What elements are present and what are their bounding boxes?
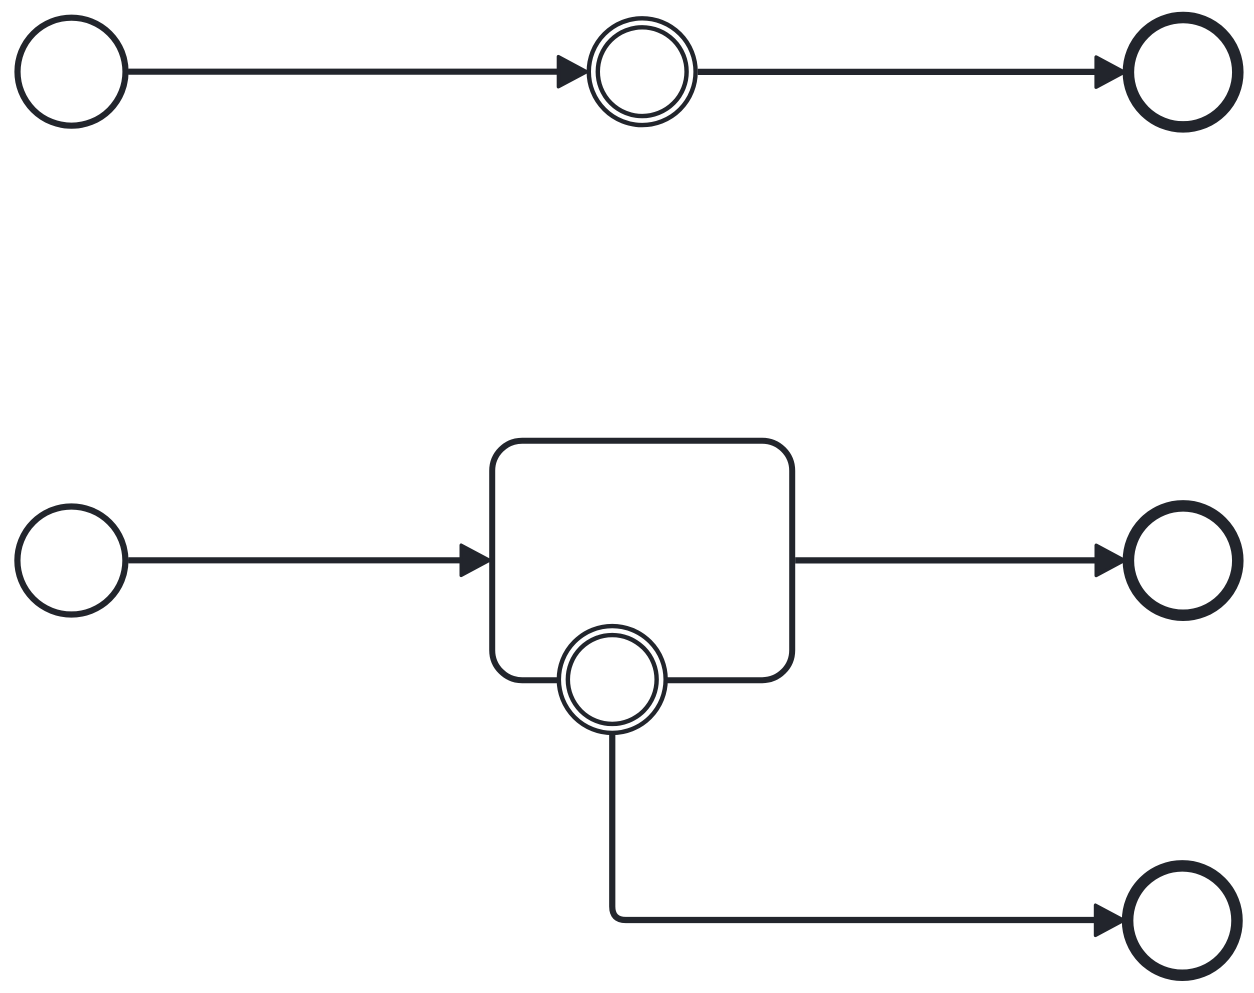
start event (top row) (18, 18, 126, 126)
sequence flow: bottom start to task (128, 545, 489, 575)
sequence flow: intermediate event to top end event (698, 57, 1125, 87)
sequence flow: task to middle end event (795, 545, 1124, 575)
task (rounded rectangle) (492, 441, 792, 681)
sequence flow: top start to intermediate event (129, 57, 587, 87)
boundary event (double circle on task bottom border) (559, 626, 666, 733)
intermediate event (top row, double circle) (589, 18, 696, 125)
end event (top row, thick circle) (1128, 17, 1237, 126)
start event (bottom section) (17, 507, 125, 615)
end event (bottom right, thick circle) (1128, 866, 1237, 975)
end event (middle right, thick circle) (1128, 506, 1237, 615)
sequence flow: boundary event elbow to bottom end event (612, 735, 1123, 936)
